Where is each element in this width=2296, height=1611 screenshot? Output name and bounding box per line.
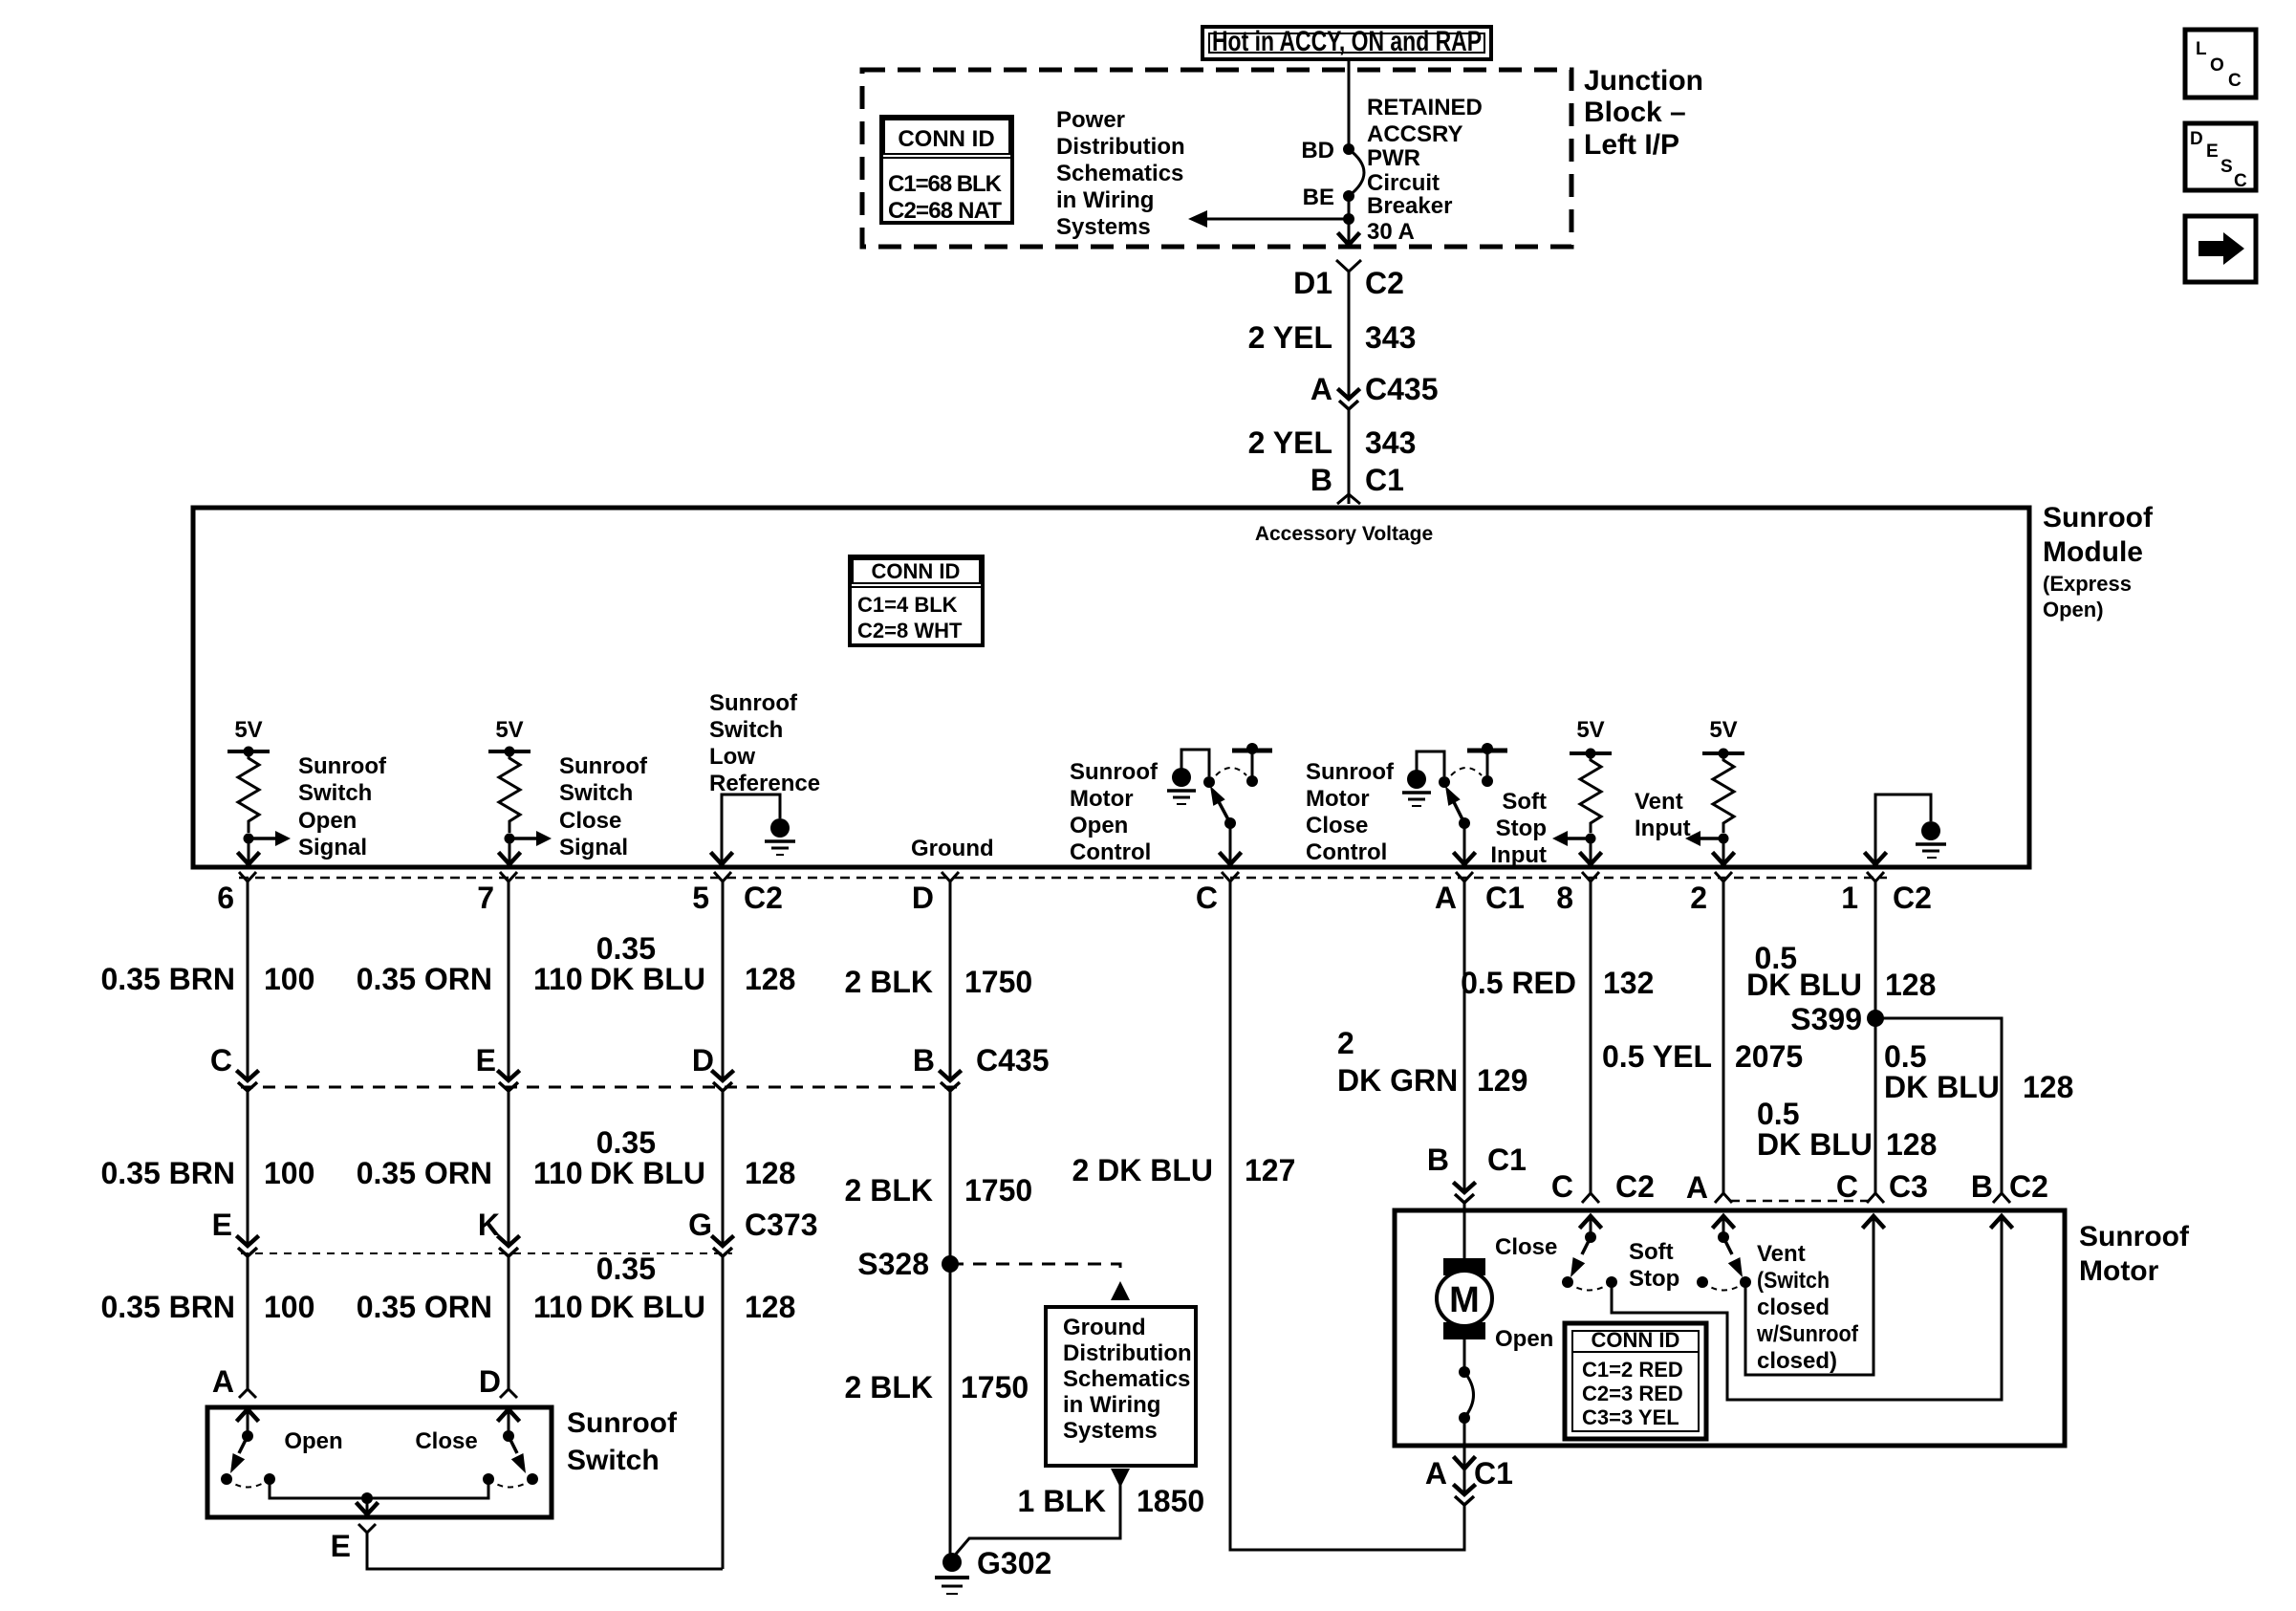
svg-text:132: 132 (1603, 966, 1654, 1000)
connector C435 pass-through (down arrow + double chevron) (1339, 390, 1358, 409)
connector C435 pin B chevrons (941, 1072, 960, 1091)
svg-text:G: G (688, 1208, 712, 1242)
svg-text:Control: Control (1306, 839, 1387, 865)
wire: 2 YEL 343 (C435 to sunroof module pin B C1) (1348, 409, 1351, 504)
wire: 0.35 BRN 100 (pin 6 to C435) (247, 882, 249, 1080)
svg-text:Schematics: Schematics (1063, 1366, 1190, 1392)
connector C373 pin E chevrons (238, 1237, 257, 1256)
svg-text:E: E (331, 1529, 351, 1563)
svg-text:343: 343 (1365, 320, 1416, 355)
svg-text:1750: 1750 (961, 1370, 1029, 1404)
wire: 0.35 DK BLU 128 (C435 to C373) (722, 1091, 725, 1246)
sunroof motor pin A C1 exit (bottom) (1425, 1446, 1513, 1505)
svg-text:Power: Power (1056, 107, 1125, 133)
svg-text:CONN ID: CONN ID (898, 126, 994, 152)
svg-text:C1: C1 (1474, 1456, 1513, 1491)
connector B C1 chevrons at motor (1455, 1184, 1474, 1203)
DESC icon box (top right) (2185, 123, 2256, 191)
svg-text:C2: C2 (744, 881, 783, 915)
wire: 0.35 ORN 110 (C435 to C373) (508, 1091, 510, 1246)
svg-text:A: A (1686, 1170, 1708, 1205)
resistor: sunroof switch open signal pull-up (5V, pin 6) (227, 717, 387, 864)
svg-text:C1=2 RED: C1=2 RED (1582, 1358, 1683, 1382)
switch: soft stop (motor) (1562, 1216, 1679, 1292)
svg-text:Systems: Systems (1063, 1418, 1158, 1444)
wire: 2 BLK 1750 (C435 to S328) (949, 1091, 952, 1264)
motor pin C C3 fork (1867, 1193, 1884, 1203)
svg-text:Sunroof: Sunroof (298, 753, 387, 779)
svg-text:K: K (478, 1208, 500, 1242)
sunroof switch pin D fork (500, 1389, 517, 1398)
junction block dashed box (862, 70, 1571, 247)
svg-text:Stop: Stop (1496, 816, 1547, 841)
svg-text:in Wiring: in Wiring (1056, 187, 1154, 213)
svg-text:B: B (913, 1043, 935, 1078)
svg-text:2: 2 (1337, 1026, 1354, 1060)
svg-text:Systems: Systems (1056, 214, 1151, 240)
junction block label "Junction Block - Left I/P" (1584, 65, 1703, 161)
wire: 0.5 YEL 2075 (pin 2 to motor pin A) (1722, 882, 1725, 1193)
svg-text:C: C (1551, 1169, 1573, 1204)
switch: close contact (pin D) (415, 1409, 538, 1488)
wire: 2 BLK 1750 (S328 to G302) (949, 1264, 952, 1558)
svg-text:DK BLU: DK BLU (1884, 1070, 2000, 1104)
svg-text:D: D (912, 881, 934, 915)
svg-text:2 YEL: 2 YEL (1248, 425, 1332, 460)
svg-text:Close: Close (1306, 813, 1368, 838)
svg-text:0.5 RED: 0.5 RED (1461, 966, 1576, 1000)
svg-text:C1=4 BLK: C1=4 BLK (857, 593, 958, 617)
svg-text:Circuit: Circuit (1367, 170, 1440, 196)
relay: sunroof motor open control (1070, 743, 1272, 865)
ground: sunroof switch low reference (pin 5) (709, 690, 820, 864)
svg-text:BD: BD (1301, 138, 1334, 163)
wire: 0.35 ORN 110 (C373 to sunroof switch pin D) (508, 1256, 510, 1389)
svg-text:7: 7 (477, 881, 494, 915)
resistor: soft stop input pull-up (5V, pin 8) (1490, 717, 1612, 868)
node S328 (942, 1255, 959, 1273)
svg-text:D: D (2190, 129, 2203, 149)
wire: pin E to DK BLU wire (L-path) (367, 1533, 723, 1569)
svg-text:Distribution: Distribution (1056, 134, 1185, 160)
svg-text:Open: Open (1495, 1326, 1553, 1352)
svg-text:C3=3 YEL: C3=3 YEL (1582, 1405, 1679, 1429)
svg-text:5V: 5V (234, 717, 262, 743)
svg-text:Switch: Switch (559, 780, 633, 806)
connector C435 pin E chevrons (499, 1072, 518, 1091)
wire: soft stop contact to motor pin B C2 (1612, 1216, 2002, 1400)
svg-text:RETAINED: RETAINED (1367, 95, 1483, 120)
svg-text:129: 129 (1477, 1063, 1527, 1098)
svg-text:Motor: Motor (1070, 786, 1134, 812)
connector pin B C1 chevron at module (1337, 494, 1360, 504)
svg-text:128: 128 (745, 1156, 795, 1190)
connector C435 pin C chevrons (238, 1072, 257, 1091)
svg-text:DK BLU: DK BLU (590, 1290, 705, 1324)
CONN ID table (sunroof module) (850, 556, 983, 645)
svg-text:100: 100 (264, 962, 314, 996)
svg-text:Close: Close (1495, 1234, 1557, 1260)
svg-text:CONN ID: CONN ID (872, 559, 961, 583)
switch: motor internal open contact (1459, 1339, 1474, 1446)
svg-text:Sunroof: Sunroof (709, 690, 798, 716)
svg-text:C: C (210, 1043, 232, 1078)
svg-text:S328: S328 (857, 1247, 929, 1281)
connector C373 dashed line (241, 1252, 732, 1254)
svg-text:Motor: Motor (1306, 786, 1370, 812)
node: breaker output junction (1343, 213, 1354, 225)
svg-text:100: 100 (264, 1290, 314, 1324)
svg-text:Input: Input (1635, 816, 1691, 841)
svg-text:1850: 1850 (1137, 1484, 1204, 1518)
svg-text:1: 1 (1841, 881, 1858, 915)
svg-text:0.35 ORN: 0.35 ORN (357, 1290, 492, 1324)
wire: 2 YEL 343 (junction block to C435) (1348, 272, 1351, 399)
svg-text:Sunroof: Sunroof (559, 753, 648, 779)
svg-text:0.35: 0.35 (596, 1252, 656, 1286)
svg-text:CONN ID: CONN ID (1592, 1328, 1680, 1352)
svg-text:Close: Close (415, 1428, 477, 1454)
svg-text:2 BLK: 2 BLK (845, 1173, 933, 1208)
svg-text:Ground: Ground (911, 836, 994, 861)
svg-text:8: 8 (1556, 881, 1573, 915)
wire: 0.5 DK BLU 128 (S399 to motor pin C C3) (1874, 1018, 1877, 1193)
svg-text:E: E (212, 1208, 232, 1242)
svg-text:S: S (2220, 157, 2233, 177)
svg-text:2 BLK: 2 BLK (845, 1370, 933, 1404)
svg-text:128: 128 (745, 1290, 795, 1324)
svg-text:A: A (1425, 1456, 1447, 1491)
svg-text:5V: 5V (1709, 717, 1737, 743)
svg-text:Hot in ACCY, ON and RAP: Hot in ACCY, ON and RAP (1212, 26, 1482, 57)
wire: 2 BLK 1750 (pin D to C435) (949, 882, 952, 1080)
svg-text:Soft: Soft (1629, 1239, 1674, 1265)
node S399 (1867, 1010, 1884, 1027)
svg-text:C: C (2228, 71, 2242, 91)
wire: arrow to power distribution (points left) (1188, 210, 1349, 228)
relay: sunroof motor close control (1306, 743, 1507, 865)
svg-text:Switch: Switch (709, 717, 783, 743)
wire: 2 DK BLU 127 (pin C to sunroof motor pin A C1) (1230, 882, 1464, 1550)
svg-text:Distribution: Distribution (1063, 1340, 1192, 1366)
sunroof motor box (1395, 1210, 2065, 1446)
wire: 0.35 BRN 100 (C373 to sunroof switch pin A) (247, 1256, 249, 1389)
svg-text:0.35 BRN: 0.35 BRN (101, 962, 236, 996)
wire: switch common bus to pin E (270, 1479, 488, 1514)
svg-text:1 BLK: 1 BLK (1018, 1484, 1106, 1518)
svg-text:M: M (1449, 1280, 1480, 1320)
svg-text:Soft: Soft (1502, 789, 1547, 815)
svg-text:Open: Open (1070, 813, 1128, 838)
svg-text:0.5 YEL: 0.5 YEL (1602, 1039, 1712, 1074)
motor pin A fork (1715, 1193, 1732, 1203)
svg-text:0.35: 0.35 (596, 1125, 656, 1160)
svg-text:C: C (1196, 881, 1218, 915)
svg-text:DK BLU: DK BLU (1757, 1127, 1873, 1162)
motor M (sunroof motor armature) (1437, 1210, 1557, 1352)
svg-text:Reference: Reference (709, 771, 820, 796)
svg-text:0.35 BRN: 0.35 BRN (101, 1290, 236, 1324)
svg-text:110: 110 (533, 1156, 583, 1190)
svg-text:E: E (2206, 142, 2219, 162)
svg-text:C1=68 BLK: C1=68 BLK (888, 171, 1003, 197)
wire: 0.5 DK BLU 128 (pin 1 to S399) (1874, 882, 1877, 1018)
svg-text:Left I/P: Left I/P (1584, 129, 1679, 161)
svg-text:5V: 5V (1576, 717, 1604, 743)
CONN ID table (junction block) (881, 117, 1012, 224)
svg-text:2: 2 (1690, 881, 1707, 915)
sunroof module box (193, 508, 2029, 867)
svg-text:110: 110 (533, 1290, 583, 1324)
svg-text:Accessory Voltage: Accessory Voltage (1255, 523, 1433, 545)
svg-text:Vent: Vent (1635, 789, 1683, 815)
svg-text:Schematics: Schematics (1056, 161, 1183, 186)
connector C2/C1 dashed line under module (239, 877, 1887, 880)
svg-text:Switch: Switch (298, 780, 372, 806)
svg-text:Breaker: Breaker (1367, 193, 1452, 219)
connector pin forks at module (239, 872, 256, 882)
connector C435 pin D chevrons (713, 1072, 732, 1091)
connector C373 pin G chevrons (713, 1237, 732, 1256)
wire: feed leaving junction block (down arrow at dashed edge) (1339, 219, 1358, 245)
connector dashed segment between motor pins A and C C3 (1730, 1200, 1870, 1203)
svg-text:128: 128 (1885, 968, 1936, 1002)
svg-text:Ground: Ground (1063, 1315, 1146, 1340)
svg-text:128: 128 (1886, 1127, 1937, 1162)
svg-text:C1: C1 (1365, 463, 1404, 497)
svg-text:30 A: 30 A (1367, 219, 1415, 245)
svg-text:110: 110 (533, 962, 583, 996)
svg-text:BE: BE (1303, 185, 1334, 210)
svg-text:0.35 BRN: 0.35 BRN (101, 1156, 236, 1190)
svg-text:Signal: Signal (559, 835, 628, 860)
svg-text:Open): Open) (2043, 598, 2104, 621)
connector C435 dashed line (241, 1086, 958, 1089)
svg-text:2 YEL: 2 YEL (1248, 320, 1332, 355)
svg-text:C: C (2234, 171, 2247, 191)
svg-text:DK GRN: DK GRN (1337, 1063, 1458, 1098)
svg-text:D: D (479, 1364, 501, 1399)
LOC icon box (top right) (2185, 30, 2256, 98)
svg-text:w/Sunroof: w/Sunroof (1756, 1321, 1859, 1347)
wire: 2 DK GRN 129 (pin A C1 to motor pin B C1) (1463, 882, 1466, 1192)
svg-text:closed): closed) (1757, 1348, 1837, 1374)
wire: accessory power feed into junction block (1348, 59, 1351, 149)
svg-text:Vent: Vent (1757, 1241, 1806, 1267)
svg-text:5: 5 (692, 881, 709, 915)
svg-text:C435: C435 (1365, 372, 1439, 406)
svg-text:Open: Open (298, 808, 357, 834)
svg-text:DK BLU: DK BLU (1746, 968, 1862, 1002)
svg-text:2 BLK: 2 BLK (845, 965, 933, 999)
svg-text:PWR: PWR (1367, 145, 1420, 171)
svg-text:2075: 2075 (1735, 1039, 1803, 1074)
svg-text:100: 100 (264, 1156, 314, 1190)
svg-text:S399: S399 (1790, 1002, 1862, 1036)
svg-text:Sunroof: Sunroof (2079, 1221, 2190, 1252)
svg-text:2 DK BLU: 2 DK BLU (1072, 1153, 1213, 1187)
connector pin D1 C2 (Y fork) (1336, 260, 1361, 272)
svg-text:Sunroof: Sunroof (567, 1407, 678, 1439)
circuit breaker "RETAINED ACCSRY PWR Circuit Breaker 30 A" (1301, 95, 1483, 245)
svg-text:128: 128 (2023, 1070, 2073, 1104)
svg-text:C1: C1 (1485, 881, 1525, 915)
svg-text:D1: D1 (1293, 266, 1332, 300)
svg-text:C3: C3 (1889, 1169, 1928, 1204)
note box "Ground Distribution Schematics in Wiring Systems" (1046, 1307, 1196, 1466)
sunroof switch pin E exit (331, 1524, 376, 1563)
svg-text:E: E (476, 1043, 496, 1078)
note "Power Distribution Schematics in Wiring Systems" (1056, 107, 1185, 240)
svg-text:C2=8 WHT: C2=8 WHT (857, 619, 963, 642)
svg-text:Sunroof: Sunroof (2043, 502, 2154, 533)
svg-text:Motor: Motor (2079, 1255, 2159, 1287)
svg-text:closed: closed (1757, 1295, 1830, 1320)
svg-text:Module: Module (2043, 536, 2143, 568)
wire: 0.35 ORN 110 (pin 7 to C435) (508, 882, 510, 1080)
svg-text:in Wiring: in Wiring (1063, 1392, 1160, 1418)
svg-text:127: 127 (1245, 1153, 1295, 1187)
wire: dashed branch from S328 to ground distribution (950, 1264, 1120, 1273)
arrow icon box (top right) (2185, 216, 2256, 282)
svg-text:1750: 1750 (964, 1173, 1032, 1208)
wire: 0.35 DK BLU 128 (pin 5 to C435) (722, 882, 725, 1080)
switch: open contact (pin A) (221, 1409, 343, 1488)
resistor: vent input pull-up (5V, pin 2) (1635, 717, 1744, 864)
wire: 0.35 BRN 100 (C435 to C373) (247, 1091, 249, 1246)
svg-text:Control: Control (1070, 839, 1151, 865)
svg-text:6: 6 (217, 881, 234, 915)
svg-text:0.35 ORN: 0.35 ORN (357, 962, 492, 996)
ground: module internal ground (pin 1) (1866, 795, 1946, 864)
svg-text:5V: 5V (495, 717, 523, 743)
switch: vent (motor) (1697, 1216, 1859, 1374)
sunroof motor label (2079, 1221, 2190, 1287)
wire: 1 BLK 1850 (ground distribution to G302) (952, 1469, 1204, 1558)
svg-text:ACCSRY: ACCSRY (1367, 121, 1462, 147)
svg-text:Sunroof: Sunroof (1306, 759, 1395, 785)
svg-text:C: C (1836, 1169, 1858, 1204)
sunroof module label (2043, 502, 2154, 621)
wire: 0.5 DK BLU 128 (S399 branch to motor pin B C2) (1875, 1018, 2002, 1193)
svg-text:0.35 ORN: 0.35 ORN (357, 1156, 492, 1190)
ground G302 (935, 1546, 1051, 1594)
motor pin C C2 fork (1582, 1193, 1599, 1203)
svg-text:343: 343 (1365, 425, 1416, 460)
svg-text:Switch: Switch (567, 1445, 660, 1476)
svg-text:DK BLU: DK BLU (590, 962, 705, 996)
sunroof switch label (567, 1407, 678, 1476)
svg-text:(Express: (Express (2043, 572, 2132, 596)
svg-text:C2: C2 (2009, 1169, 2048, 1204)
svg-text:Low: Low (709, 744, 755, 770)
svg-text:C373: C373 (745, 1208, 818, 1242)
svg-text:C435: C435 (976, 1043, 1050, 1078)
resistor: sunroof switch close signal pull-up (5V, pin 7) (488, 717, 648, 864)
svg-text:C2=68 NAT: C2=68 NAT (888, 198, 1002, 224)
wire: vent contact to motor pin C C3 (1745, 1216, 1874, 1375)
svg-text:0.5: 0.5 (1884, 1039, 1926, 1074)
svg-text:C2: C2 (1615, 1169, 1655, 1204)
svg-text:B: B (1971, 1169, 1993, 1204)
svg-text:C2: C2 (1365, 266, 1404, 300)
sunroof switch box (207, 1407, 552, 1517)
svg-text:Signal: Signal (298, 835, 367, 860)
wire: 0.5 RED 132 (pin 8 to motor pin C C2) (1590, 882, 1592, 1193)
svg-text:L: L (2196, 39, 2207, 59)
svg-text:D: D (692, 1043, 714, 1078)
svg-text:C2=3 RED: C2=3 RED (1582, 1382, 1683, 1405)
svg-text:G302: G302 (977, 1546, 1051, 1580)
svg-text:Stop: Stop (1629, 1266, 1679, 1292)
svg-text:0.35: 0.35 (596, 931, 656, 966)
CONN ID table (sunroof motor) (1565, 1323, 1706, 1439)
svg-text:0.5: 0.5 (1757, 1097, 1799, 1131)
svg-text:C2: C2 (1893, 881, 1932, 915)
svg-text:Sunroof: Sunroof (1070, 759, 1159, 785)
svg-text:128: 128 (745, 962, 795, 996)
svg-text:Input: Input (1490, 842, 1547, 868)
svg-text:Junction: Junction (1584, 65, 1703, 97)
sunroof switch pin A fork (239, 1389, 256, 1398)
wire: 0.35 DK BLU 128 (C373 down right of switch) (722, 1256, 725, 1569)
svg-text:Close: Close (559, 808, 621, 834)
svg-text:A: A (212, 1364, 234, 1399)
svg-text:O: O (2210, 55, 2224, 76)
svg-text:A: A (1435, 881, 1457, 915)
power feed label box "Hot in ACCY, ON and RAP" (1202, 26, 1491, 59)
svg-text:B: B (1427, 1143, 1449, 1177)
svg-text:Open: Open (284, 1428, 342, 1454)
motor pin B C2 fork (1993, 1193, 2010, 1203)
svg-text:C1: C1 (1487, 1143, 1527, 1177)
svg-text:Block –: Block – (1584, 97, 1686, 128)
svg-text:B: B (1310, 463, 1332, 497)
svg-text:(Switch: (Switch (1757, 1268, 1830, 1294)
svg-text:DK BLU: DK BLU (590, 1156, 705, 1190)
svg-text:A: A (1310, 372, 1332, 406)
connector C373 pin K chevrons (499, 1237, 518, 1256)
svg-text:1750: 1750 (964, 965, 1032, 999)
